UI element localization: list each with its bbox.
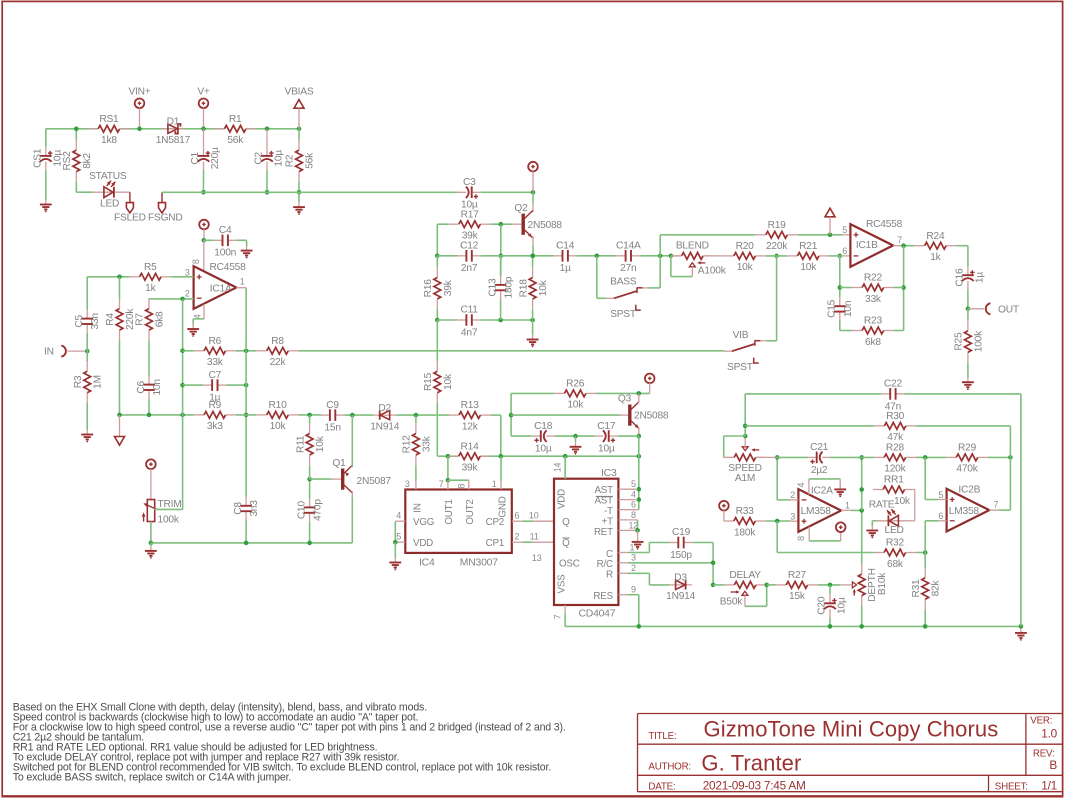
wire: C7 left lead to vertical: [183, 384, 204, 386]
svg-text:2N5088: 2N5088: [634, 411, 669, 422]
svg-text:FSGND: FSGND: [148, 212, 183, 223]
resistor R21 10k: [787, 255, 797, 257]
wire: BASS riser corner link: [597, 297, 607, 299]
svg-text:RATE: RATE: [869, 500, 895, 511]
wire: OUT jack pin: [968, 308, 984, 310]
svg-text:180p: 180p: [504, 276, 515, 298]
wire: R7 bottom to C6: [148, 340, 150, 375]
svg-text:10k: 10k: [443, 373, 454, 390]
capacitor C15 10n: [838, 306, 841, 311]
diode D3 1N914: [669, 584, 692, 586]
wire: V+ stem at Q2: [532, 171, 534, 192]
capacitor C4 100n: [223, 239, 228, 242]
svg-text:R18: R18: [518, 279, 529, 298]
wire: R33 to pin3: [766, 520, 791, 522]
svg-text:6: 6: [515, 511, 520, 521]
svg-text:1k: 1k: [930, 252, 941, 263]
svg-text:AST: AST: [594, 495, 613, 506]
junction C12 left: [435, 254, 440, 259]
IC2A polarity marks: [802, 499, 807, 501]
svg-text:IC2B: IC2B: [958, 484, 980, 495]
wire: IC4 pin8 riser: [468, 480, 470, 489]
junction Q1 emitter riser: [350, 413, 355, 418]
svg-text:470p: 470p: [313, 499, 324, 521]
wire: output vertical: [861, 457, 863, 510]
svg-text:39k: 39k: [462, 463, 479, 474]
connector IN jack: [61, 346, 66, 357]
svg-text:IN: IN: [413, 503, 424, 513]
resistor R31: [924, 568, 926, 578]
svg-text:10: 10: [529, 511, 539, 521]
svg-text:47k: 47k: [887, 432, 904, 443]
wire: IC2A pin4 riser to ground: [808, 479, 810, 495]
wire: IC2B output: [989, 509, 999, 511]
svg-text:56k: 56k: [227, 135, 244, 146]
wire: R15 bottom to R14 row: [436, 403, 438, 456]
wire: R24 right corner: [956, 245, 968, 247]
svg-text:10n: 10n: [843, 301, 854, 317]
wire: IC4 pin6 to IC3 pin10: [512, 520, 523, 522]
svg-text:100k: 100k: [158, 515, 180, 526]
wire: Q3 base row: [511, 414, 620, 416]
junction R17/Q2 base: [499, 222, 504, 227]
wire: R13 right corner down: [491, 414, 501, 416]
wire: C10 bottom: [309, 522, 311, 543]
svg-text:3n3: 3n3: [249, 500, 260, 517]
svg-text:C4: C4: [219, 225, 232, 236]
VBIAS symbol at IC1B: [825, 208, 835, 217]
junction R2 top: [297, 127, 302, 132]
switch VIB SPST: [724, 350, 732, 352]
svg-text:R32: R32: [886, 538, 905, 549]
svg-text:11: 11: [530, 532, 539, 542]
junction IN node: [85, 349, 90, 354]
resistor R6 33k: [194, 350, 204, 352]
junction output/R22 net: [901, 243, 906, 248]
svg-text:R9: R9: [209, 400, 222, 411]
BLEND wiper: [689, 263, 695, 267]
svg-text:Q: Q: [562, 517, 570, 528]
wire: C15 bottom to R23: [839, 321, 841, 331]
wire: vertical x=246 pin1 to C8: [245, 330, 247, 497]
svg-text:2021-09-03 7:45 AM: 2021-09-03 7:45 AM: [703, 778, 806, 792]
capacitor C19 150p: [678, 541, 683, 544]
supply V+ at Q2: [528, 162, 538, 172]
wire: R10-C9 link: [299, 414, 322, 416]
wire: IC2A pin3 stub: [790, 520, 798, 522]
resistor R27 15k: [776, 584, 786, 586]
junction R6 left: [180, 349, 185, 354]
ground below CS1: [45, 200, 47, 205]
pentagon FSGND: [159, 203, 166, 213]
junction VGG/VDD: [393, 540, 398, 545]
svg-text:1k8: 1k8: [101, 135, 117, 146]
svg-text:7: 7: [897, 235, 902, 245]
svg-text:OUT2: OUT2: [465, 499, 476, 524]
svg-text:10k: 10k: [315, 435, 326, 452]
supply V+ top: [199, 99, 209, 109]
wire: Q1 base wire: [310, 478, 332, 480]
svg-text:VDD: VDD: [413, 538, 433, 549]
pin connector FSGND: [161, 192, 163, 202]
wire: R6 left lead link: [183, 350, 194, 352]
resistor R16 39k: [436, 267, 438, 277]
wire: IC2A pin2 net from C21 node: [776, 457, 778, 500]
wire: RS2 to LED row: [75, 182, 77, 192]
junction BLEND left: [669, 254, 674, 259]
svg-text:VGG: VGG: [413, 517, 434, 528]
wire: C4 to ground: [237, 239, 247, 241]
wire: DEPTH bottom: [861, 606, 863, 627]
svg-text:6k8: 6k8: [155, 311, 166, 327]
svg-text:R19: R19: [768, 220, 787, 231]
resistor R3 1M: [86, 361, 88, 371]
svg-text:220k: 220k: [766, 241, 788, 252]
wire: pin3 net down to R32 row: [776, 521, 778, 553]
svg-text:2: 2: [790, 490, 795, 500]
wire: Q1 emitter riser: [351, 415, 353, 467]
resistor RS2 8k2: [75, 140, 77, 150]
svg-text:8: 8: [631, 510, 636, 520]
svg-text:12k: 12k: [462, 421, 479, 432]
wire: R27 to depth node: [818, 584, 841, 586]
wire: C14A to BLEND: [640, 255, 671, 257]
ground at IC1A pin4: [192, 324, 194, 329]
svg-text:SHEET:: SHEET:: [995, 782, 1028, 793]
wire: C3 right to V+/Q2 node: [481, 191, 533, 193]
wire: R11 bottom link: [309, 466, 311, 480]
wire: R18 top: [532, 256, 534, 267]
wire: R12 top: [415, 415, 417, 423]
svg-text:10k: 10k: [567, 400, 584, 411]
svg-text:CP2: CP2: [486, 517, 504, 528]
wire: R32 right: [916, 552, 925, 554]
schematic frame border bottom emphasis: [2, 795, 1062, 797]
svg-text:IC1A: IC1A: [210, 283, 232, 294]
wire: pin1 to C19 riser: [648, 543, 650, 553]
svg-text:5: 5: [842, 225, 847, 235]
junction R32/R31/pin6: [923, 550, 928, 555]
junction C7 right: [244, 383, 249, 388]
svg-text:RC4558: RC4558: [210, 262, 247, 273]
junction C2 top: [265, 127, 270, 132]
wire: TRIM top stem: [150, 469, 152, 500]
svg-text:C16: C16: [955, 268, 966, 287]
junction R9/R10/C8: [244, 413, 249, 418]
svg-text:56k: 56k: [305, 152, 316, 169]
wire: OUT node to R25: [967, 309, 969, 321]
junction R28/R29/pin5 net: [923, 455, 928, 460]
wire: VIN+ stem: [139, 108, 141, 129]
svg-text:C6: C6: [136, 380, 147, 393]
svg-text:R11: R11: [295, 435, 306, 453]
svg-text:2: 2: [185, 289, 190, 299]
resistor R10 10k: [257, 414, 267, 416]
wire: pin8 node to C4: [204, 239, 214, 241]
supply V+ at IC2A pin8: [836, 522, 846, 532]
svg-text:10k: 10k: [737, 262, 754, 273]
svg-text:120k: 120k: [884, 464, 906, 475]
junction pin12 ground: [635, 528, 640, 533]
junction C13 bottom: [498, 318, 503, 323]
wire: C12 leads row: [437, 255, 457, 257]
svg-text:C15: C15: [827, 299, 838, 318]
title block frame: [638, 714, 1063, 792]
LED RATE: [877, 520, 909, 522]
svg-text:1: 1: [492, 479, 497, 489]
svg-text:470k: 470k: [956, 464, 978, 475]
DEPTH adjust up-arrow: [853, 590, 855, 595]
wire: IC1B output: [893, 245, 904, 247]
connector OUT jack: [986, 303, 991, 314]
wire: R6-R8 link: [236, 350, 257, 352]
pin connector FSLED: [125, 191, 130, 193]
resistor R33 180k: [724, 520, 734, 522]
wire: R33 left stem: [723, 510, 725, 521]
wire: Q2 emitter down: [532, 236, 534, 245]
wire: R4 bottom to bias row: [119, 340, 121, 415]
wire: C7 right lead to vertical: [226, 384, 246, 386]
svg-text:100n: 100n: [214, 248, 236, 259]
ground below IC4: [394, 558, 396, 563]
svg-text:3: 3: [631, 553, 636, 563]
svg-text:10k: 10k: [538, 279, 549, 296]
resistor R23 6k8: [852, 330, 862, 332]
wire: IC4 pin2 to IC3 pin11: [512, 541, 523, 543]
junction R18 bottom: [530, 318, 535, 323]
wire: IC1B pin5 stub: [842, 234, 850, 236]
svg-text:C14: C14: [556, 241, 575, 252]
svg-text:C13: C13: [487, 278, 498, 297]
svg-text:1k: 1k: [145, 283, 156, 294]
junction R6/R8/pin1: [244, 349, 249, 354]
svg-text:R10: R10: [268, 400, 287, 411]
wire: R14 bias row: [437, 455, 639, 457]
svg-text:6: 6: [631, 500, 636, 510]
svg-text:10k: 10k: [800, 262, 817, 273]
ground at IC3 pin12: [637, 537, 639, 542]
wire: C1 drop: [203, 129, 205, 147]
potentiometer SPEED A1M: [724, 456, 734, 458]
svg-text:8: 8: [456, 484, 466, 489]
svg-text:FSLED: FSLED: [114, 212, 146, 223]
svg-text:2N5088: 2N5088: [528, 220, 563, 231]
wire: BASS riser: [596, 256, 598, 298]
wire: R30 right vertical: [1009, 426, 1011, 510]
wire: ground stub below R2: [298, 192, 300, 202]
resistor R29 470k: [946, 456, 956, 458]
svg-text:2N5087: 2N5087: [357, 476, 392, 487]
svg-text:3k3: 3k3: [207, 421, 223, 432]
svg-text:AST: AST: [594, 485, 613, 496]
junction C21 left: [775, 455, 780, 460]
resistor R14 39k: [449, 455, 459, 457]
wire: Q3 collector riser: [638, 393, 640, 403]
junction D3/DELAY: [711, 583, 716, 588]
resistor R26 10k: [554, 392, 564, 394]
svg-text:V+: V+: [197, 86, 210, 97]
svg-text:4: 4: [796, 482, 806, 487]
svg-text:5: 5: [631, 479, 636, 489]
svg-text:C1: C1: [190, 151, 201, 164]
svg-text:8: 8: [796, 536, 806, 541]
wire: dry signal bus: [299, 350, 724, 352]
junction BASS bypass: [658, 254, 663, 259]
junction C12 row x=500.8: [499, 254, 504, 259]
wire: IC2B pin6 wire: [939, 520, 947, 522]
wire: RS2 top link: [75, 129, 77, 140]
wire: OUT1-OUT2 tie: [448, 479, 469, 481]
svg-text:2n7: 2n7: [461, 263, 478, 274]
resistor R28 120k: [874, 456, 884, 458]
svg-text:R6: R6: [209, 336, 222, 347]
svg-text:RES: RES: [593, 591, 613, 602]
svg-text:R1: R1: [229, 114, 242, 125]
svg-text:Q1: Q1: [332, 458, 346, 469]
junction SPEED wiper: [743, 434, 748, 439]
svg-text:R: R: [606, 570, 613, 581]
wire: R4 top link: [119, 277, 121, 299]
op-amp IC1A input polarity marks: [197, 276, 202, 278]
junction R27/C20/DEPTH wiper: [828, 583, 833, 588]
transistor Q2 2N5088 (NPN): [522, 214, 525, 235]
junction R22/C15: [838, 285, 843, 290]
svg-text:C18: C18: [534, 421, 553, 432]
junction VIN+: [137, 127, 142, 132]
ground at IC2A pin4: [839, 485, 841, 490]
wire: DELAY wiper loop: [745, 605, 767, 607]
svg-text:VIB: VIB: [733, 330, 749, 341]
junction Q3 collector: [637, 391, 642, 396]
wire: IC4 pin5 stub: [395, 541, 405, 543]
svg-text:14: 14: [553, 463, 563, 473]
svg-text:C12: C12: [460, 241, 479, 252]
svg-text:7: 7: [439, 479, 444, 489]
svg-text:GND: GND: [497, 496, 508, 517]
svg-text:13: 13: [532, 553, 542, 563]
svg-text:Q: Q: [562, 538, 570, 549]
junction R31 ground rail: [923, 624, 928, 629]
svg-text:LED: LED: [100, 199, 119, 210]
svg-text:VSS: VSS: [557, 574, 568, 594]
capacitor C10 470p: [308, 507, 311, 512]
wire: R3 top link: [86, 351, 88, 361]
svg-text:A100k: A100k: [698, 266, 727, 277]
capacitor CS1: [44, 156, 47, 162]
svg-text:BLEND: BLEND: [676, 241, 709, 252]
ground below R25: [967, 378, 969, 383]
wire: C19 right corner: [693, 542, 714, 544]
svg-text:VER:: VER:: [1030, 715, 1052, 726]
resistor R19 220k: [756, 234, 766, 236]
svg-text:R26: R26: [566, 379, 585, 390]
svg-text:RS1: RS1: [99, 114, 119, 125]
wire: D3-DELAY link: [713, 584, 724, 586]
svg-text:VDD: VDD: [557, 489, 568, 509]
svg-text:RC4558: RC4558: [866, 219, 903, 230]
wire: IN pin: [68, 350, 88, 352]
wire: pin8 to pin12 tie: [637, 520, 639, 531]
wire: C20 bottom: [829, 617, 831, 626]
svg-text:82k: 82k: [931, 579, 942, 596]
capacitor C5 33n: [86, 319, 89, 324]
ground below R3: [86, 430, 88, 435]
svg-text:R17: R17: [461, 209, 480, 220]
wire: R26 left vertical: [510, 393, 512, 436]
svg-text:TRIM: TRIM: [158, 499, 182, 510]
ground at C4: [246, 246, 248, 251]
svg-text:15n: 15n: [324, 423, 340, 434]
wire: D2 to R13: [396, 414, 449, 416]
svg-text:IN: IN: [44, 347, 54, 358]
svg-text:RET: RET: [594, 527, 613, 538]
svg-text:2: 2: [515, 532, 520, 542]
svg-text:C5: C5: [74, 314, 85, 327]
wire: RR1 right corner to LED: [914, 490, 916, 521]
svg-text:RS2: RS2: [62, 151, 73, 171]
svg-text:VBIAS: VBIAS: [285, 86, 314, 97]
DELAY wiper: [742, 591, 748, 595]
svg-text:C21: C21: [810, 442, 829, 453]
resistor R20 10k: [724, 255, 734, 257]
wire: inverting net vertical x=182.6: [182, 299, 184, 510]
DELAY adjust arrow: [731, 591, 739, 593]
wire: R11 top: [309, 415, 311, 423]
svg-text:C2: C2: [254, 151, 265, 164]
wire: C8 bottom: [245, 520, 247, 543]
junction trim riser: [180, 413, 185, 418]
wire: SPEED right lead: [756, 456, 778, 458]
svg-text:R25: R25: [954, 332, 965, 351]
svg-text:33k: 33k: [207, 357, 224, 368]
svg-text:D2: D2: [378, 403, 391, 414]
wire: BLEND left lead: [671, 255, 682, 257]
svg-text:Q2: Q2: [514, 203, 528, 214]
wire: VBIAS stem: [298, 108, 300, 129]
svg-text:7: 7: [553, 614, 563, 619]
wire: Q3 emitter to IC3 ast pins: [638, 436, 640, 510]
junction D2/R12: [414, 413, 419, 418]
svg-text:100k: 100k: [973, 330, 984, 352]
wire: R22 feedback vertical: [903, 246, 905, 331]
svg-text:6k8: 6k8: [865, 337, 881, 348]
wire: V+ stem at Q3: [649, 383, 651, 393]
svg-text:R28: R28: [886, 443, 905, 454]
wire: IC4 pin1 riser: [500, 456, 502, 481]
svg-text:R24: R24: [926, 231, 945, 242]
svg-text:10n: 10n: [152, 379, 163, 395]
wire: R31 top: [924, 553, 926, 568]
svg-text:3: 3: [790, 512, 795, 522]
svg-text:+T: +T: [602, 516, 614, 527]
junction rail ground: [1019, 624, 1024, 629]
resistor R1 56k: [214, 128, 224, 130]
capacitor C6 10n: [147, 385, 150, 390]
junction pin8/C4: [202, 238, 207, 243]
wire: IC3 pin3 stub: [618, 562, 628, 564]
resistor R4 220k: [119, 298, 121, 308]
junction BASS riser: [595, 254, 600, 259]
resistor R8 22k: [257, 350, 267, 352]
wire: Q2 collector riser: [532, 192, 534, 203]
capacitor C7 1u: [212, 384, 217, 387]
SPEED wiper: [742, 447, 748, 451]
svg-text:B: B: [1049, 758, 1057, 772]
capacitor C9 15n: [330, 414, 335, 417]
svg-text:C3: C3: [463, 177, 476, 188]
svg-text:LM358: LM358: [801, 506, 832, 517]
svg-text:C20: C20: [817, 596, 828, 615]
